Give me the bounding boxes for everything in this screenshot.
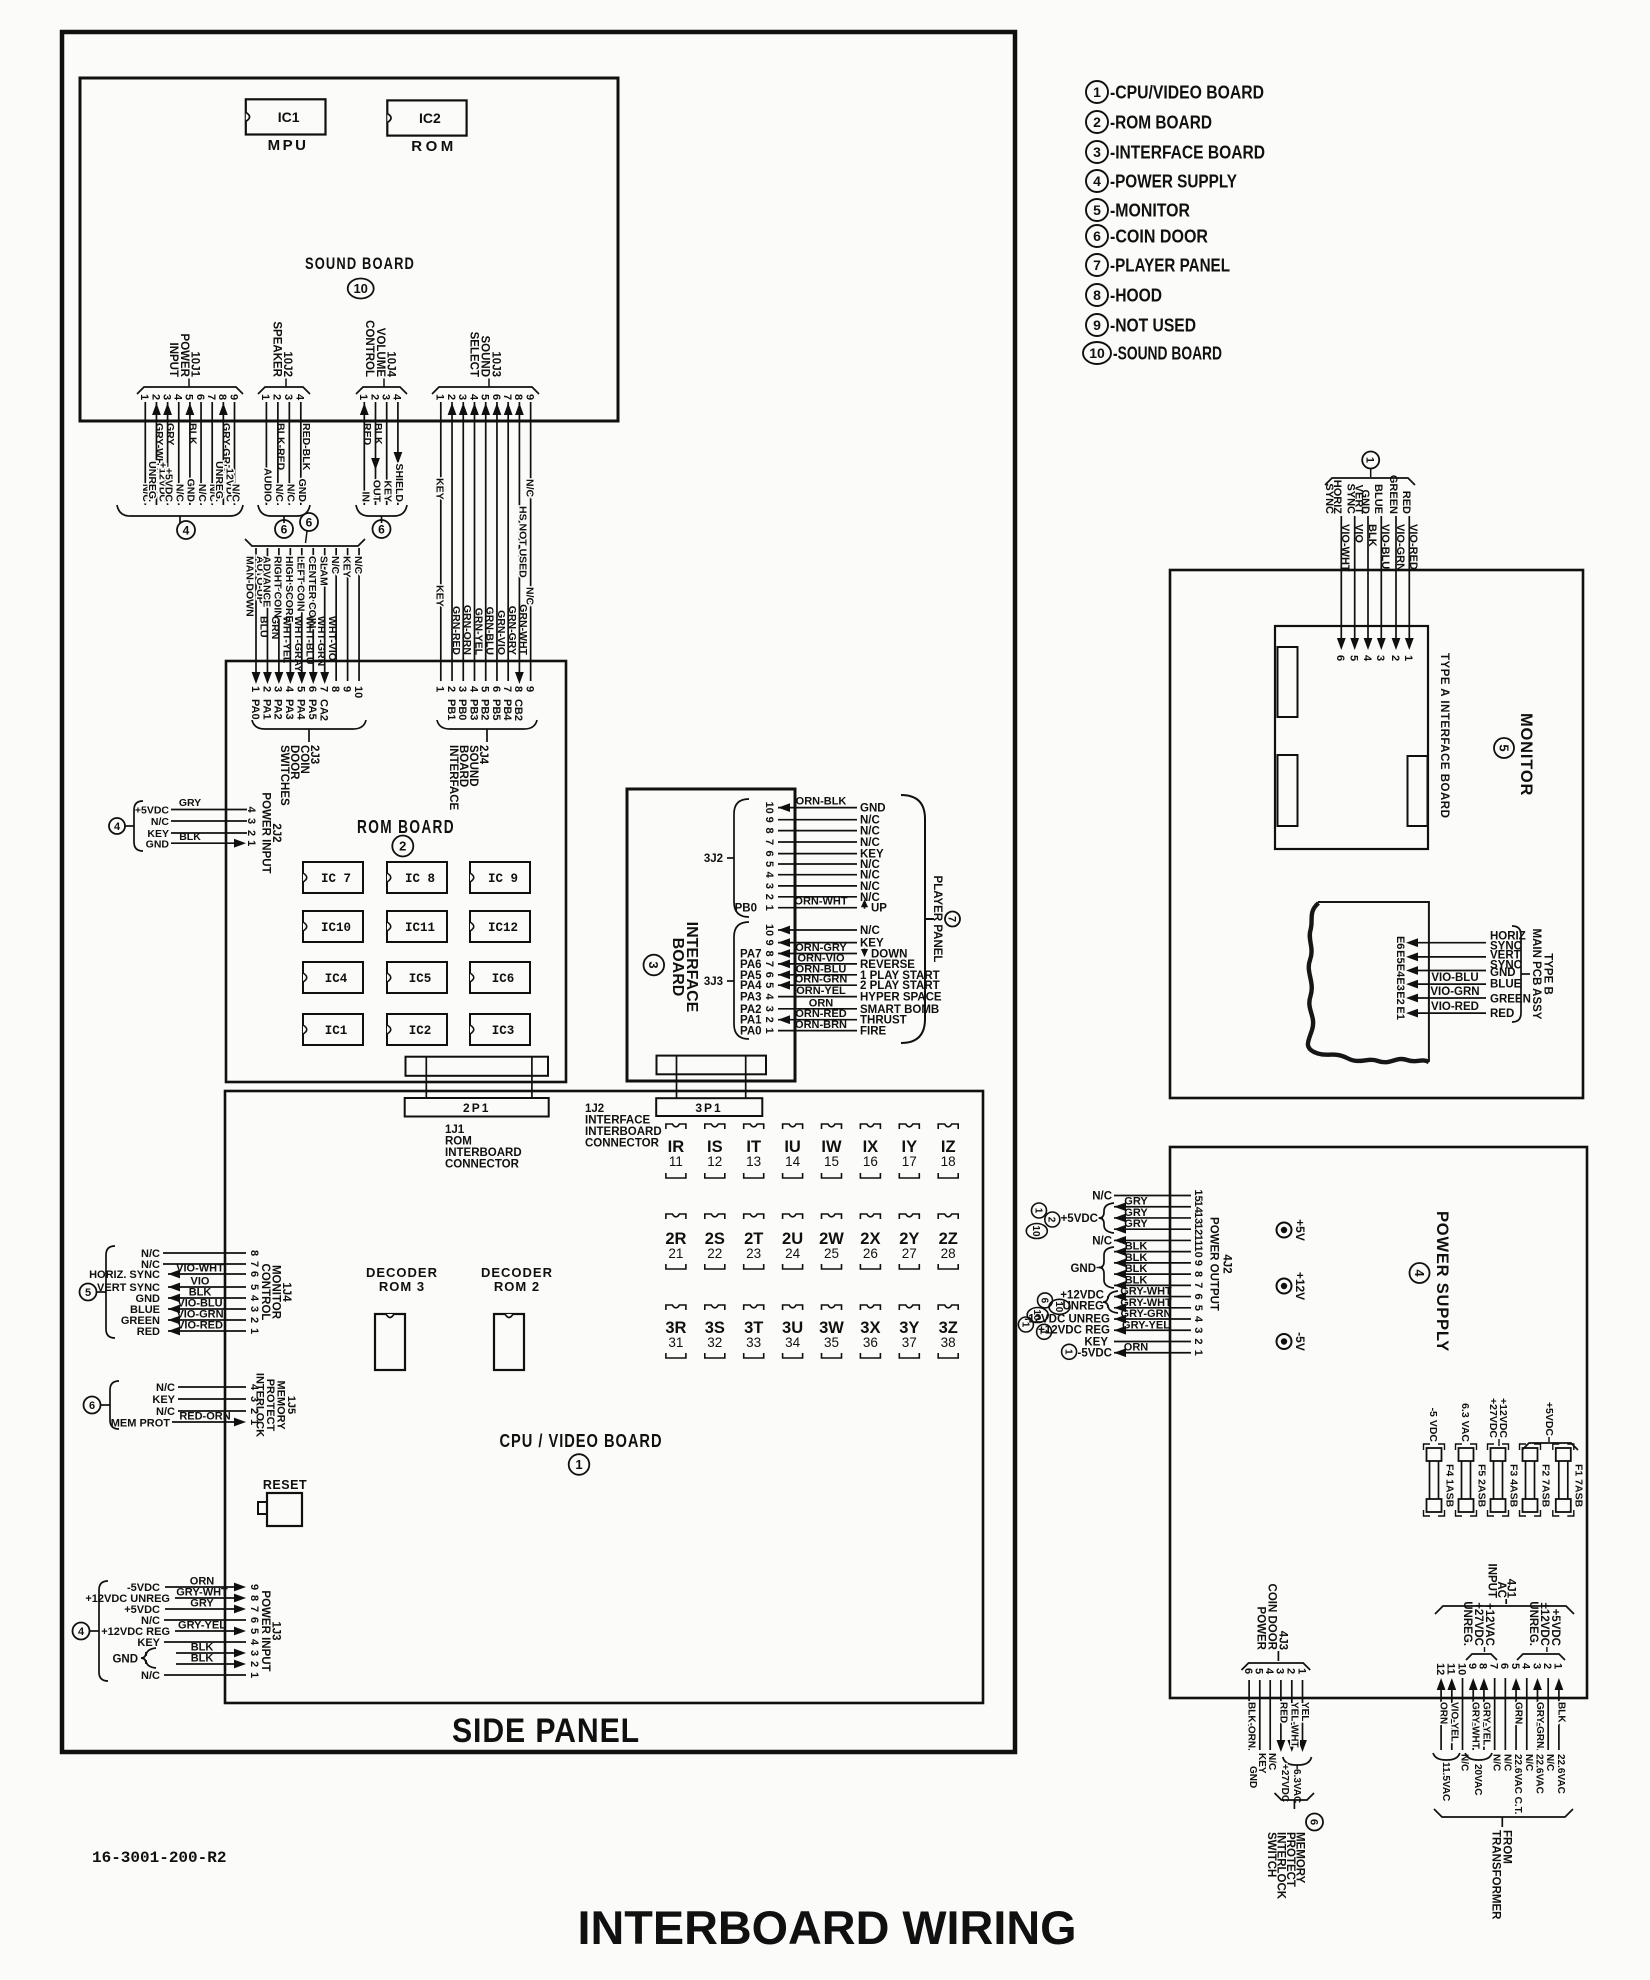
svg-text:POWER INPUT: POWER INPUT: [259, 792, 271, 873]
svg-text:4: 4: [294, 394, 306, 401]
svg-text:ORN-GRN: ORN-GRN: [795, 974, 848, 986]
svg-text:38: 38: [941, 1335, 956, 1350]
svg-text:2: 2: [248, 1661, 260, 1667]
svg-text:16-3001-200-R2: 16-3001-200-R2: [92, 1849, 226, 1867]
label 1J1 ROM INTERBOARD CONNECTOR: [445, 1124, 522, 1171]
svg-text:7: 7: [1093, 257, 1101, 273]
connector 2J3 coin door switches: [249, 686, 366, 806]
svg-text:PA3: PA3: [283, 699, 295, 720]
svg-text:HS NOT USED: HS NOT USED: [517, 506, 529, 578]
socket 3W 35: [819, 1305, 844, 1358]
svg-text:PB1: PB1: [445, 699, 457, 720]
interface board outline: [627, 789, 795, 1081]
svg-text:ORN: ORN: [1124, 1342, 1149, 1354]
svg-text:4: 4: [248, 1639, 260, 1646]
svg-text:7: 7: [205, 394, 217, 400]
svg-text:BLK: BLK: [1125, 1241, 1148, 1253]
svg-text:2: 2: [1285, 1668, 1297, 1674]
svg-text:YEL: YEL: [1299, 1702, 1310, 1721]
svg-text:5: 5: [248, 1628, 260, 1634]
ref 2 rom board: [392, 836, 413, 857]
svg-text:SHIELD: SHIELD: [393, 463, 405, 502]
svg-text:5: 5: [248, 1284, 260, 1290]
svg-text:IC10: IC10: [321, 921, 351, 935]
fuse F1: [1553, 1444, 1574, 1516]
svg-text:N/C: N/C: [1544, 1754, 1555, 1771]
svg-text:FIRE: FIRE: [860, 1026, 887, 1038]
test point +12V: [1277, 1272, 1308, 1300]
svg-text:34: 34: [785, 1335, 801, 1350]
type B main pcb torn outline: [1308, 902, 1429, 1062]
svg-text:F5 2ASB: F5 2ASB: [1476, 1464, 1488, 1508]
connector 3J3 player panel lower: [704, 922, 942, 1039]
bracket 2J2 group: [125, 801, 143, 851]
svg-text:2: 2: [399, 839, 406, 854]
chip IC3: [470, 1014, 530, 1045]
svg-text:N/C: N/C: [141, 1670, 160, 1682]
svg-text:F1 7ASB: F1 7ASB: [1573, 1464, 1585, 1508]
svg-text:10: 10: [1089, 345, 1105, 361]
svg-text:GND: GND: [1247, 1766, 1258, 1788]
svg-text:IC4: IC4: [325, 972, 348, 986]
svg-text:1: 1: [248, 1328, 260, 1334]
svg-text:9: 9: [763, 817, 775, 823]
wire bundle type B pcb: [1394, 931, 1531, 1021]
svg-text:13: 13: [746, 1154, 761, 1169]
svg-text:5: 5: [1093, 202, 1101, 218]
svg-text:SYNC: SYNC: [1323, 483, 1335, 514]
svg-text:RED-ORN: RED-ORN: [179, 1411, 230, 1423]
svg-text:CONNECTOR: CONNECTOR: [585, 1138, 660, 1150]
svg-text:HYPER SPACE: HYPER SPACE: [860, 992, 942, 1004]
svg-text:GRY-WHT: GRY-WHT: [1120, 1297, 1172, 1309]
svg-text:3J2: 3J2: [704, 853, 723, 865]
svg-text:VIO-WHT: VIO-WHT: [1339, 524, 1351, 572]
svg-text:6.3VAC: 6.3VAC: [1291, 1769, 1302, 1803]
socket 2W 25: [819, 1214, 844, 1269]
svg-text:9: 9: [523, 686, 535, 692]
legend item 5 MONITOR: [1086, 199, 1190, 221]
svg-text:1: 1: [259, 394, 271, 400]
ref 5 monitor: [1494, 738, 1514, 758]
svg-text:IC6: IC6: [492, 972, 515, 986]
svg-text:4J2: 4J2: [1220, 1254, 1232, 1273]
svg-text:14: 14: [1192, 1201, 1204, 1214]
svg-text:4: 4: [1412, 1269, 1427, 1277]
svg-text:2: 2: [248, 1317, 260, 1323]
svg-text:KEY: KEY: [434, 585, 446, 607]
svg-text:GRY-YEL: GRY-YEL: [178, 1620, 226, 1632]
svg-text:4: 4: [78, 1626, 85, 1638]
socket 3T 33: [744, 1305, 764, 1358]
svg-text:8: 8: [1192, 1271, 1204, 1277]
svg-text:PB4: PB4: [501, 699, 513, 721]
svg-text:RED: RED: [361, 423, 373, 446]
svg-text:10: 10: [763, 801, 775, 813]
svg-text:BLK: BLK: [1125, 1252, 1148, 1264]
legend item 10 SOUND BOARD: [1083, 342, 1222, 364]
side panel outline: [62, 32, 1015, 1752]
svg-text:3: 3: [1374, 655, 1386, 661]
svg-text:9: 9: [227, 394, 239, 400]
fuse F2: [1520, 1444, 1541, 1516]
svg-text:8: 8: [216, 394, 228, 400]
connector 10J1 POWER INPUT: [137, 334, 243, 401]
svg-text:RED-BLK: RED-BLK: [300, 423, 312, 471]
svg-text:1: 1: [138, 394, 150, 400]
svg-text:10: 10: [352, 686, 364, 698]
connector 2P1: [405, 1098, 549, 1117]
title INTERBOARD WIRING: [578, 1901, 1077, 1954]
svg-text:26: 26: [863, 1246, 878, 1261]
svg-text:2: 2: [1046, 1217, 1057, 1223]
svg-text:AUDIO: AUDIO: [261, 468, 273, 502]
socket 2S 22: [705, 1214, 725, 1269]
svg-text:7: 7: [318, 686, 330, 692]
chip IC9: [470, 862, 530, 893]
svg-text:N/C: N/C: [860, 837, 880, 849]
svg-text:PB3: PB3: [467, 699, 479, 720]
svg-text:ADVANCE: ADVANCE: [260, 556, 272, 607]
socket IW 15: [821, 1124, 842, 1178]
socket IR 11: [666, 1124, 686, 1178]
svg-text:BLK: BLK: [372, 423, 384, 445]
svg-text:BLK: BLK: [186, 423, 198, 445]
svg-text:N/C: N/C: [229, 484, 241, 503]
svg-text:INTERBOARD: INTERBOARD: [445, 1147, 522, 1159]
svg-text:5: 5: [295, 686, 307, 692]
ref 1 cpu video board: [569, 1454, 590, 1475]
svg-text:3: 3: [456, 394, 468, 400]
chip IC10: [303, 911, 363, 942]
svg-text:-MONITOR: -MONITOR: [1110, 201, 1190, 221]
svg-text:INTERBOARD: INTERBOARD: [585, 1126, 662, 1138]
type A inner pad lower: [1278, 755, 1298, 826]
svg-text:KEY: KEY: [152, 1394, 175, 1406]
svg-text:IC11: IC11: [405, 921, 435, 935]
svg-text:22.6VAC C.T.: 22.6VAC C.T.: [1512, 1754, 1523, 1815]
svg-text:WHT-YEL: WHT-YEL: [280, 616, 292, 664]
svg-text:2: 2: [1192, 1338, 1204, 1344]
svg-text:1: 1: [1063, 1349, 1074, 1355]
svg-text:6: 6: [306, 686, 318, 692]
svg-text:KEY: KEY: [137, 1637, 160, 1649]
svg-text:IC12: IC12: [488, 921, 518, 935]
svg-text:5: 5: [85, 1287, 91, 1299]
svg-text:6: 6: [306, 515, 313, 529]
ref 3 interface board: [644, 955, 665, 976]
svg-text:ORN-BLK: ORN-BLK: [796, 796, 847, 808]
bracket player panel: [901, 795, 934, 1043]
wire bundle 10J4 volume control: [359, 402, 405, 505]
svg-text:7: 7: [248, 1606, 260, 1612]
svg-text:BLU: BLU: [258, 616, 270, 638]
type A inner pad upper: [1278, 647, 1298, 717]
svg-text:14: 14: [785, 1154, 801, 1169]
svg-text:VIO: VIO: [1353, 524, 1365, 543]
label 1J2 INTERFACE INTERBOARD CONNECTOR: [585, 1103, 662, 1150]
svg-text:8: 8: [763, 950, 775, 956]
svg-text:POWER: POWER: [1254, 1607, 1266, 1651]
svg-text:6: 6: [1308, 1819, 1320, 1825]
svg-text:POWER INPUT: POWER INPUT: [259, 1590, 271, 1671]
svg-text:GRN-WHT: GRN-WHT: [517, 604, 529, 655]
svg-text:15: 15: [1192, 1189, 1204, 1201]
svg-text:PA3: PA3: [740, 992, 762, 1004]
svg-text:6: 6: [763, 972, 775, 978]
label SIDE PANEL: [452, 1712, 640, 1750]
svg-text:BLK: BLK: [179, 831, 201, 843]
svg-text:VIO-BLU: VIO-BLU: [1379, 524, 1391, 569]
svg-text:3: 3: [248, 1650, 260, 1656]
label TYPE B MAIN PCB ASSY: [1530, 929, 1554, 1020]
socket IT 13: [744, 1124, 764, 1178]
svg-text:3: 3: [1274, 1668, 1286, 1674]
svg-text:4: 4: [1263, 1668, 1275, 1675]
svg-text:1: 1: [1038, 1329, 1049, 1335]
svg-text:VIO-GRN: VIO-GRN: [1430, 986, 1479, 998]
label PLAYER PANEL: [931, 876, 943, 963]
svg-text:INTERFACE: INTERFACE: [585, 1115, 651, 1127]
power supply outline: [1170, 1147, 1587, 1698]
wire bundle 10J1 power input: [140, 402, 241, 505]
svg-text:SWITCHES: SWITCHES: [278, 745, 290, 806]
svg-text:WHT-GRN: WHT-GRN: [315, 616, 327, 666]
socket 2Y 27: [899, 1214, 919, 1269]
svg-text:8: 8: [329, 686, 341, 692]
svg-text:IC 8: IC 8: [405, 872, 435, 886]
svg-text:1: 1: [434, 686, 446, 692]
svg-text:8: 8: [763, 828, 775, 834]
svg-text:INTERLOCK: INTERLOCK: [254, 1373, 266, 1437]
svg-text:GRY: GRY: [1124, 1196, 1148, 1208]
svg-text:5: 5: [1192, 1305, 1204, 1311]
svg-text:10: 10: [763, 924, 775, 936]
svg-text:4: 4: [245, 806, 257, 813]
svg-text:-5V: -5V: [1293, 1332, 1307, 1351]
svg-text:10: 10: [1192, 1246, 1204, 1258]
legend item 1 CPU/VIDEO BOARD: [1086, 81, 1264, 103]
svg-text:PA4: PA4: [295, 699, 307, 720]
svg-text:PA4: PA4: [740, 980, 762, 992]
ref 4 power to 2J2: [109, 818, 125, 834]
svg-text:VIO-RED: VIO-RED: [177, 1320, 223, 1332]
svg-text:-COIN DOOR: -COIN DOOR: [1110, 227, 1208, 247]
svg-text:22.6VAC: 22.6VAC: [1555, 1754, 1566, 1794]
svg-text:+5VDC: +5VDC: [1543, 1402, 1555, 1437]
svg-text:17: 17: [902, 1154, 917, 1169]
monitor outline: [1170, 570, 1583, 1098]
svg-text:N/C: N/C: [156, 1406, 175, 1418]
svg-text:37: 37: [902, 1335, 917, 1350]
svg-text:MAIN PCB ASSY: MAIN PCB ASSY: [1530, 929, 1542, 1020]
fuse F3: [1488, 1444, 1509, 1516]
svg-text:E2: E2: [1394, 991, 1406, 1004]
ref 4 power to 1J3: [73, 1623, 90, 1640]
svg-text:SELECT: SELECT: [468, 332, 480, 377]
svg-text:INPUT: INPUT: [1485, 1564, 1497, 1599]
svg-text:VIO-RED: VIO-RED: [1431, 1001, 1479, 1013]
svg-text:36: 36: [863, 1335, 878, 1350]
svg-text:VIO-GRN: VIO-GRN: [1394, 524, 1406, 571]
label SOUND BOARD: [305, 254, 415, 273]
svg-text:PA1: PA1: [260, 699, 272, 720]
svg-text:BOARD: BOARD: [669, 938, 686, 997]
svg-text:7: 7: [501, 394, 513, 400]
svg-text:GRY: GRY: [190, 1598, 214, 1610]
svg-text:2: 2: [149, 394, 161, 400]
svg-text:GND: GND: [296, 479, 308, 503]
svg-text:ROM BOARD: ROM BOARD: [357, 817, 455, 837]
svg-text:2: 2: [271, 394, 283, 400]
svg-text:4: 4: [467, 394, 479, 401]
svg-text:10: 10: [1030, 1225, 1041, 1237]
svg-text:CB2: CB2: [512, 699, 524, 721]
refs at 4J2: [1018, 1203, 1076, 1359]
ref 6 coin door switches: [300, 513, 318, 543]
svg-text:5: 5: [763, 982, 775, 988]
ref 1 cpu to monitor: [1362, 452, 1379, 478]
svg-text:N/C: N/C: [860, 925, 880, 937]
wire 2P1 pins: [426, 1057, 532, 1098]
svg-text:UNREG.: UNREG.: [1461, 1601, 1473, 1646]
svg-text:N/C: N/C: [284, 484, 296, 503]
connector 3J2 player panel upper: [704, 796, 887, 918]
svg-text:6: 6: [1242, 1668, 1254, 1674]
chip IC1 MPU: [246, 99, 326, 154]
svg-text:4: 4: [1192, 1316, 1204, 1323]
svg-text:PA2: PA2: [272, 699, 284, 720]
svg-text:ROM: ROM: [411, 138, 457, 155]
socket 3Z 38: [938, 1305, 958, 1358]
svg-text:9: 9: [1093, 317, 1101, 333]
svg-text:16: 16: [863, 1154, 878, 1169]
socket 3Y 37: [899, 1305, 919, 1358]
ref 6 coin door volume: [373, 520, 391, 538]
svg-text:F2 7ASB: F2 7ASB: [1540, 1464, 1552, 1508]
bracket monitor harness: [1325, 478, 1415, 485]
svg-text:8: 8: [248, 1595, 260, 1601]
svg-text:IC2: IC2: [419, 110, 441, 126]
svg-text:9: 9: [1192, 1260, 1204, 1266]
svg-text:12: 12: [1434, 1663, 1446, 1675]
chip IC7: [303, 862, 363, 893]
svg-text:-HOOD: -HOOD: [1110, 286, 1162, 306]
socket IY 17: [899, 1124, 919, 1178]
svg-text:5: 5: [183, 394, 195, 400]
label TYPE A INTERFACE BOARD: [1438, 653, 1450, 818]
svg-text:2: 2: [368, 394, 380, 400]
svg-text:-5VDC: -5VDC: [1077, 1348, 1112, 1360]
svg-text:OUT: OUT: [371, 480, 383, 503]
svg-text:BLK: BLK: [1125, 1274, 1148, 1286]
reset switch: [258, 1478, 307, 1526]
bracket 10J4 to coin door ref: [356, 505, 407, 523]
svg-text:CONTROL: CONTROL: [259, 1264, 271, 1321]
svg-text:20VAC: 20VAC: [1472, 1764, 1483, 1796]
svg-text:GRY: GRY: [179, 797, 201, 809]
wire 3P1 pins: [677, 1056, 746, 1098]
connector 4J3 coin door power: [1242, 1584, 1311, 1675]
svg-text:GRY: GRY: [1124, 1218, 1148, 1230]
svg-text:1: 1: [1364, 457, 1376, 463]
svg-text:2: 2: [763, 894, 775, 900]
svg-text:+27VDC: +27VDC: [1487, 1398, 1499, 1438]
svg-text:GRY-GRN: GRY-GRN: [1534, 1702, 1545, 1748]
svg-text:2: 2: [445, 394, 457, 400]
connector 10J3 SOUND SELECT: [432, 332, 539, 401]
svg-text:ORN-YEL: ORN-YEL: [796, 985, 846, 997]
svg-text:6: 6: [248, 1617, 260, 1623]
svg-text:+27VDC: +27VDC: [1279, 1764, 1290, 1802]
svg-text:4: 4: [763, 994, 775, 1001]
fuse F5: [1456, 1444, 1477, 1516]
svg-text:7: 7: [763, 961, 775, 967]
legend item 8 HOOD: [1086, 284, 1162, 306]
svg-text:BLK-RED: BLK-RED: [274, 423, 286, 471]
svg-text:-ROM BOARD: -ROM BOARD: [1110, 113, 1212, 133]
svg-text:SWITCH: SWITCH: [1265, 1832, 1277, 1877]
svg-text:1: 1: [763, 1028, 775, 1034]
type A inner pad right: [1408, 756, 1428, 826]
wire bundle 10J2 speaker: [261, 402, 311, 505]
svg-text:INPUT: INPUT: [167, 343, 179, 378]
svg-text:UNREG.: UNREG.: [1527, 1601, 1539, 1646]
svg-text:1J1: 1J1: [445, 1124, 465, 1136]
svg-text:PB5: PB5: [490, 699, 502, 720]
svg-text:3: 3: [1192, 1327, 1204, 1333]
svg-text:N/C: N/C: [1092, 1235, 1112, 1247]
svg-text:IC1: IC1: [278, 109, 300, 125]
svg-text:GRN-BLU: GRN-BLU: [484, 607, 496, 655]
test point -5V: [1277, 1332, 1308, 1351]
svg-text:F4 1ASB: F4 1ASB: [1444, 1464, 1456, 1508]
svg-text:YEL-WHT: YEL-WHT: [1288, 1702, 1299, 1748]
svg-text:+5VDC: +5VDC: [1061, 1213, 1098, 1225]
svg-text:MEM PROT: MEM PROT: [111, 1418, 171, 1430]
svg-text:2: 2: [245, 830, 257, 836]
svg-text:3: 3: [282, 394, 294, 400]
wire bundle coin door to 2J3: [244, 548, 364, 684]
svg-text:6: 6: [1334, 655, 1346, 661]
svg-text:1: 1: [434, 394, 446, 400]
svg-text:PB0: PB0: [456, 699, 468, 720]
svg-text:BLK: BLK: [191, 1653, 214, 1665]
socket 2U 24: [782, 1214, 803, 1269]
ref 6 coin door to 1J5: [84, 1397, 101, 1414]
svg-text:+5VDC: +5VDC: [135, 805, 170, 817]
svg-text:8: 8: [1093, 287, 1101, 303]
svg-text:N/C: N/C: [329, 556, 341, 575]
svg-text:6: 6: [490, 394, 502, 400]
svg-text:-PLAYER PANEL: -PLAYER PANEL: [1110, 256, 1230, 276]
svg-text:PA0: PA0: [249, 699, 261, 720]
svg-text:IC1: IC1: [325, 1024, 348, 1038]
svg-text:25: 25: [824, 1246, 839, 1261]
svg-text:GND: GND: [185, 479, 197, 503]
svg-text:INTERBOARD WIRING: INTERBOARD WIRING: [578, 1901, 1077, 1954]
svg-text:ROM 2: ROM 2: [494, 1279, 540, 1294]
svg-text:6: 6: [1093, 228, 1101, 244]
svg-text:RIGHT COIN: RIGHT COIN: [272, 556, 284, 618]
socket 2R 21: [665, 1214, 686, 1269]
svg-text:MPU: MPU: [268, 137, 309, 154]
svg-text:+5VDC: +5VDC: [162, 468, 174, 503]
wire bundle cpu to monitor: [1323, 475, 1419, 662]
svg-text:3: 3: [763, 1006, 775, 1012]
svg-text:7: 7: [501, 686, 513, 692]
svg-text:8: 8: [512, 686, 524, 692]
